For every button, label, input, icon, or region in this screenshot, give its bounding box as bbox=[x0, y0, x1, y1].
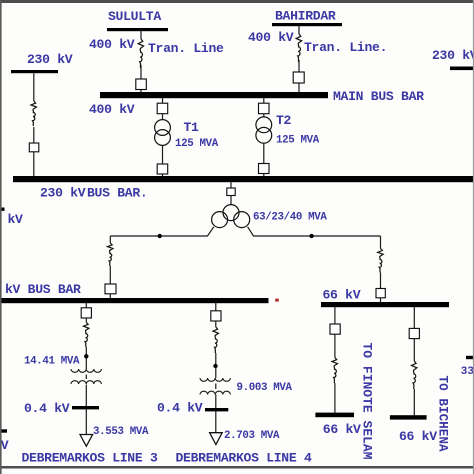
breaker square feeder A bbox=[81, 308, 91, 318]
svg-text:T1: T1 bbox=[184, 120, 200, 135]
svg-text:2.703 MVA: 2.703 MVA bbox=[224, 430, 280, 442]
transmission line symbol L9 bbox=[412, 361, 417, 389]
frame border top bbox=[0, 0, 474, 3]
svg-text:Tran. Line.: Tran. Line. bbox=[304, 40, 387, 55]
transformer T2 (two circles) bbox=[256, 117, 272, 133]
bus bar 0.4 kV feeder B bbox=[205, 408, 228, 411]
breaker square (Sululta line) bbox=[136, 79, 147, 90]
svg-text:66 kV: 66 kV bbox=[323, 288, 361, 303]
breaker square (3W transformer) bbox=[227, 188, 235, 196]
bus bar 230 kV top-left bbox=[11, 70, 58, 73]
transmission line symbol L7 bbox=[213, 327, 218, 353]
transmission line symbol L6 bbox=[84, 322, 89, 347]
bus bar fragment right edge (33) bbox=[466, 356, 474, 359]
svg-text:230 kV: 230 kV bbox=[27, 52, 73, 67]
transmission line symbol L5 bbox=[378, 249, 383, 273]
svg-text:SULULTA: SULULTA bbox=[108, 9, 161, 24]
wire T1 branch bbox=[162, 98, 164, 176]
svg-text:230 kV: 230 kV bbox=[40, 186, 86, 201]
red tick bbox=[275, 299, 279, 302]
bus bar 230 kV main bbox=[13, 176, 474, 182]
svg-text:33: 33 bbox=[461, 366, 474, 378]
breaker square 66kV feeder 1 bbox=[330, 324, 340, 334]
transmission line symbol L8 bbox=[332, 358, 337, 383]
junction dot right bbox=[309, 234, 313, 238]
wire Sululta bus to line symbol bbox=[140, 31, 142, 93]
bus bar BAHIRDAR 400kV bbox=[272, 23, 342, 26]
wire feeder A (Debremarkos line 3) bbox=[85, 303, 87, 435]
bus bar 66kV feeder 2 end bbox=[390, 415, 427, 419]
svg-text:230 kV: 230 kV bbox=[432, 48, 474, 63]
transmission line symbol L2 bbox=[296, 34, 301, 62]
bus bar 0.4 kV feeder A bbox=[72, 406, 99, 409]
svg-text:0.4 kV: 0.4 kV bbox=[157, 401, 203, 416]
transformer coils feeder A bbox=[71, 369, 101, 372]
transmission line symbol L3 bbox=[31, 101, 36, 126]
svg-text:66 kV: 66 kV bbox=[399, 429, 437, 444]
bus bar 230kV top-right fragment bbox=[450, 67, 474, 71]
svg-text:9.003 MVA: 9.003 MVA bbox=[237, 382, 293, 394]
breaker square T2 upper bbox=[259, 103, 270, 114]
breaker square (left 230kV) bbox=[29, 143, 39, 152]
frame border bottom bbox=[0, 466, 474, 469]
junction dot left bbox=[158, 234, 162, 238]
bus bar 66 kV bbox=[321, 302, 449, 307]
svg-text:DEBREMARKOS LINE 4: DEBREMARKOS LINE 4 bbox=[176, 451, 312, 466]
wire right-mid branch down to 66kV bus bbox=[380, 236, 382, 302]
breaker square 66kV feeder 2 bbox=[409, 328, 419, 338]
svg-text:kV: kV bbox=[8, 212, 24, 227]
svg-text:TO BICHENA: TO BICHENA bbox=[436, 376, 451, 453]
bus bar fragment bottom-left bbox=[0, 429, 7, 432]
svg-text:125 MVA: 125 MVA bbox=[276, 135, 320, 147]
transformer T1 (two circles) bbox=[155, 120, 171, 136]
svg-text:400 kV: 400 kV bbox=[89, 102, 135, 117]
junction dot feeder B bbox=[213, 364, 217, 368]
bus bar 66kV feeder 1 end bbox=[315, 413, 354, 418]
svg-text:T2: T2 bbox=[276, 113, 292, 128]
transformer 3-winding 63/23/40 MVA bbox=[223, 205, 239, 221]
svg-text:TO FINOTE SELAM: TO FINOTE SELAM bbox=[360, 343, 375, 460]
bus bar MAIN BUS (400kV) bbox=[100, 92, 328, 98]
wire left 230kV branch bbox=[33, 73, 35, 176]
bus bar fragment left edge (kV) bbox=[0, 208, 5, 211]
svg-text:V: V bbox=[1, 438, 9, 453]
breaker square feeder B bbox=[211, 311, 221, 321]
svg-text:400 kV: 400 kV bbox=[248, 30, 294, 45]
svg-text:400 kV: 400 kV bbox=[89, 37, 135, 52]
breaker square (left-mid) bbox=[105, 284, 116, 294]
svg-text:MAIN BUS BAR: MAIN BUS BAR bbox=[333, 89, 424, 104]
svg-text:Tran. Line: Tran. Line bbox=[148, 41, 224, 56]
transmission line symbol L1 (zigzag+coil) bbox=[138, 39, 143, 68]
svg-text:DEBREMARKOS LINE 3: DEBREMARKOS LINE 3 bbox=[22, 451, 158, 466]
breaker square (Bahirdar line) bbox=[293, 72, 304, 83]
svg-text:BAHIRDAR: BAHIRDAR bbox=[275, 9, 336, 24]
wire Bahirdar bus to line symbol bbox=[298, 26, 300, 92]
wire feeder B (Debremarkos line 4) bbox=[215, 303, 217, 433]
svg-text:0.4 kV: 0.4 kV bbox=[24, 401, 70, 416]
breaker square T2 lower bbox=[259, 164, 270, 174]
svg-text:3.553 MVA: 3.553 MVA bbox=[93, 426, 149, 438]
frame border left bbox=[0, 0, 2, 474]
junction dot feeder A bbox=[84, 354, 88, 358]
wire 230kV bus to 3W transformer bbox=[230, 182, 232, 205]
breaker square T1 upper bbox=[157, 103, 168, 114]
svg-text:63/23/40 MVA: 63/23/40 MVA bbox=[253, 212, 327, 224]
svg-text:125 MVA: 125 MVA bbox=[175, 138, 219, 150]
breaker square T1 lower bbox=[157, 164, 168, 174]
bus bar SULULTA 400kV bbox=[107, 28, 168, 31]
wire 66kV feeder 2 bbox=[413, 307, 415, 415]
svg-text:66 kV: 66 kV bbox=[323, 422, 361, 437]
transmission line symbol L4 bbox=[108, 243, 113, 266]
wire T2 branch bbox=[263, 98, 265, 176]
load arrow feeder A bbox=[80, 435, 93, 447]
wire 66kV feeder 1 bbox=[334, 307, 336, 413]
wire right winding lead bbox=[248, 227, 381, 236]
wire left-mid branch down to kV bus bbox=[109, 236, 111, 298]
transformer coils feeder B bbox=[200, 378, 230, 381]
breaker square (right-mid) bbox=[376, 289, 385, 298]
svg-text:14.41 MVA: 14.41 MVA bbox=[24, 356, 80, 368]
wire left winding lead bbox=[110, 227, 214, 236]
load arrow feeder B bbox=[210, 433, 223, 445]
svg-text:kV BUS BAR: kV BUS BAR bbox=[5, 282, 81, 297]
frame border right bbox=[473, 0, 474, 474]
bus bar left kV bbox=[0, 298, 269, 303]
svg-text:BUS BAR.: BUS BAR. bbox=[87, 186, 147, 201]
